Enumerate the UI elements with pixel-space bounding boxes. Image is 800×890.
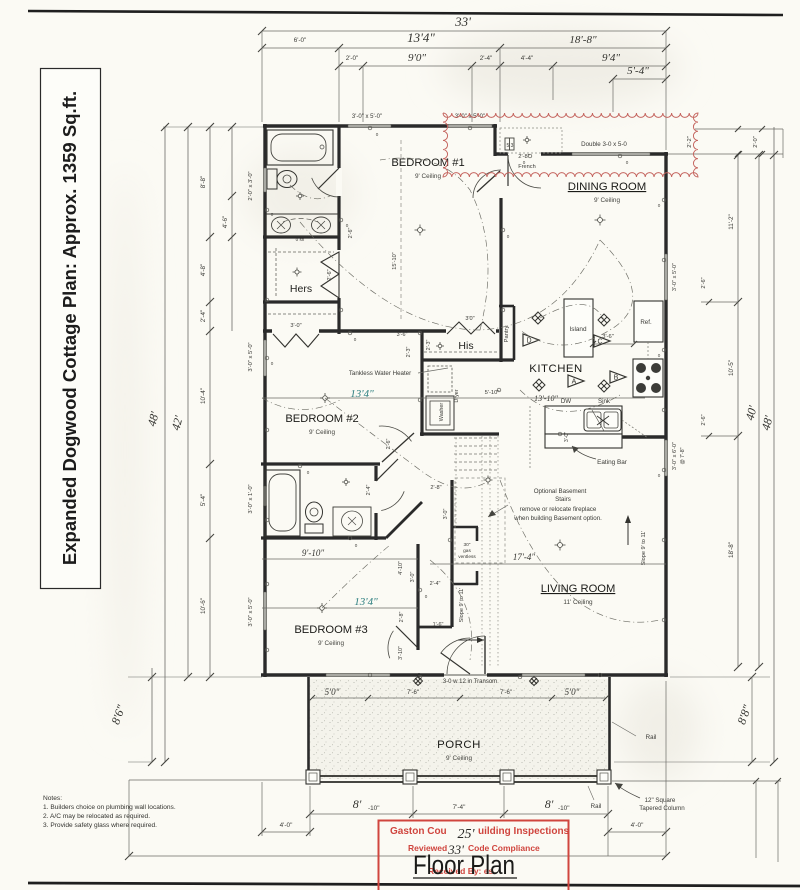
svg-text:12" Square: 12" Square bbox=[645, 797, 676, 804]
svg-text:4'-0": 4'-0" bbox=[280, 822, 293, 829]
chase bottom bbox=[452, 583, 478, 586]
bottom drop lines bbox=[129, 779, 306, 781]
svg-text:BEDROOM #1: BEDROOM #1 bbox=[391, 157, 464, 169]
stair direction arrow bbox=[458, 639, 484, 641]
svg-text:4'-6": 4'-6" bbox=[222, 216, 229, 229]
wall WD closet bottom (H4) bbox=[420, 432, 499, 435]
bottom border line bbox=[28, 883, 800, 886]
outer wall top dining section bbox=[495, 152, 668, 155]
svg-text:Floor Plan: Floor Plan bbox=[413, 850, 515, 880]
chase top bbox=[452, 526, 478, 529]
svg-text:0: 0 bbox=[658, 353, 661, 358]
outer wall top-left section bbox=[263, 124, 497, 127]
top border line bbox=[28, 11, 783, 15]
bathtub2 bbox=[265, 470, 300, 536]
window left wall bedroom3 3-0x5-0 bbox=[263, 592, 266, 630]
stair dotted verticals bbox=[481, 436, 483, 668]
living arrow up bbox=[627, 520, 629, 545]
svg-text:@ 7'-8": @ 7'-8" bbox=[680, 447, 686, 464]
svg-text:-10": -10" bbox=[368, 805, 380, 812]
svg-text:1'-6": 1'-6" bbox=[433, 622, 444, 628]
svg-text:3'-0": 3'-0" bbox=[443, 509, 449, 520]
top dimension row3 bbox=[339, 65, 666, 67]
wiring curve dining-kitchen bbox=[520, 240, 633, 345]
svg-text:1. Builders choice on plumbin: 1. Builders choice on plumbing wall loca… bbox=[43, 804, 176, 811]
right dim 2-2 jog bbox=[695, 128, 783, 130]
wall bath vanity bottom (H1) bbox=[263, 235, 340, 238]
washer bbox=[426, 396, 454, 430]
svg-text:8': 8' bbox=[353, 797, 362, 811]
stoop steps symbol bbox=[505, 138, 514, 150]
bedroom2 closet shelf dashes bbox=[268, 313, 336, 315]
svg-text:0 sn: 0 sn bbox=[296, 237, 305, 242]
svg-text:0: 0 bbox=[658, 473, 661, 478]
svg-text:0: 0 bbox=[658, 203, 661, 208]
his closet shelf bbox=[424, 351, 498, 353]
svg-text:0: 0 bbox=[271, 361, 274, 366]
svg-text:0: 0 bbox=[271, 212, 274, 217]
svg-text:Rail: Rail bbox=[591, 803, 602, 810]
left porch dim 8ft6 bbox=[151, 668, 153, 762]
window left wall bedroom2 3-0x5-0 bbox=[263, 340, 266, 376]
svg-text:Pantry: Pantry bbox=[504, 326, 510, 343]
svg-text:2'-6": 2'-6" bbox=[327, 269, 333, 280]
door bedroom1 entry arc bbox=[477, 171, 500, 192]
svg-text:2'-4": 2'-4" bbox=[366, 485, 372, 496]
svg-text:3-0 w 12 in Transom: 3-0 w 12 in Transom bbox=[443, 679, 497, 685]
svg-text:Tankless Water Heater: Tankless Water Heater bbox=[349, 370, 411, 377]
svg-text:5'0": 5'0" bbox=[325, 687, 340, 697]
svg-text:Eating Bar: Eating Bar bbox=[597, 459, 628, 466]
island bbox=[564, 299, 593, 357]
living 17-4 dim bbox=[430, 563, 666, 565]
svg-text:7'-4": 7'-4" bbox=[453, 804, 466, 811]
svg-text:10'-6": 10'-6" bbox=[200, 598, 207, 614]
wall bedroom3 right (V5) bbox=[416, 544, 419, 650]
hall bottom stub bbox=[418, 626, 452, 629]
svg-text:Island: Island bbox=[569, 326, 586, 333]
window right wall kitchen nook 3-0x6-0 bbox=[664, 440, 667, 476]
wiring bath bbox=[290, 185, 330, 199]
outer wall jog at entry stoop bbox=[493, 124, 496, 156]
wall bbox=[307, 677, 310, 782]
svg-text:gas: gas bbox=[463, 549, 471, 554]
bed3 13-4 dim bbox=[262, 607, 418, 609]
svg-text:2'-2": 2'-2" bbox=[687, 136, 693, 148]
bedroom2 diagonal door bbox=[382, 433, 414, 462]
bed2 13-4 dim bbox=[262, 397, 645, 399]
svg-text:8': 8' bbox=[545, 797, 554, 811]
svg-text:Ref.: Ref. bbox=[640, 319, 652, 326]
svg-text:DINING ROOM: DINING ROOM bbox=[568, 181, 646, 193]
svg-text:Stairs: Stairs bbox=[555, 496, 571, 503]
svg-text:Rail: Rail bbox=[646, 734, 657, 741]
fan bedroom1 bbox=[415, 225, 426, 236]
svg-text:0: 0 bbox=[307, 470, 310, 475]
svg-text:2'-6": 2'-6" bbox=[701, 414, 707, 425]
svg-text:6'-0": 6'-0" bbox=[294, 37, 307, 44]
right dim 48ft line bbox=[773, 127, 775, 762]
front door leaf and arc bbox=[484, 636, 486, 674]
sidebar title box bbox=[41, 69, 101, 589]
right porch dim 8ft8 bbox=[751, 677, 753, 762]
outer wall left bbox=[263, 124, 266, 677]
hall door arc near front entry bbox=[441, 638, 471, 653]
svg-text:2'-8": 2'-8" bbox=[430, 485, 441, 491]
bedroom3 entry door bbox=[396, 626, 418, 648]
svg-text:11' Ceiling: 11' Ceiling bbox=[563, 599, 593, 606]
bottom dim row2 4-0 lines bbox=[262, 831, 310, 833]
outlets bbox=[368, 126, 372, 130]
fan dining bbox=[595, 215, 606, 226]
svg-text:9' Ceiling: 9' Ceiling bbox=[309, 429, 336, 436]
entry stoop dashed outline bbox=[500, 128, 562, 153]
svg-text:2'-3": 2'-3" bbox=[406, 347, 412, 358]
wall WD closet left (V3) bbox=[420, 331, 423, 436]
svg-text:10'-5": 10'-5" bbox=[728, 360, 735, 376]
svg-text:5'-4": 5'-4" bbox=[627, 65, 649, 77]
svg-text:2'-0" x 3'-0": 2'-0" x 3'-0" bbox=[248, 171, 254, 200]
svg-text:8'-8": 8'-8" bbox=[200, 176, 207, 189]
svg-text:3'-6": 3'-6" bbox=[397, 332, 408, 338]
wall his closet bottom (H3) bbox=[422, 358, 514, 361]
svg-text:3'-0": 3'-0" bbox=[290, 323, 301, 329]
porch posts bbox=[306, 770, 320, 784]
svg-text:-10": -10" bbox=[558, 805, 570, 812]
svg-text:when building Basement option.: when building Basement option. bbox=[513, 515, 602, 522]
wall bedroom2 south (H5) bbox=[261, 462, 380, 465]
bed1 15-10 dim bbox=[400, 140, 402, 320]
range/cooktop bbox=[633, 359, 663, 397]
svg-text:KITCHEN: KITCHEN bbox=[529, 363, 583, 375]
light bath bbox=[296, 192, 304, 200]
svg-text:9' Ceiling: 9' Ceiling bbox=[415, 173, 442, 180]
svg-text:2'-3": 2'-3" bbox=[426, 340, 432, 351]
light bath2 bbox=[342, 478, 350, 486]
svg-text:7'-6": 7'-6" bbox=[500, 690, 512, 696]
svg-text:0: 0 bbox=[425, 594, 428, 599]
right dim segmented line A bbox=[737, 155, 739, 667]
svg-text:0: 0 bbox=[626, 160, 629, 165]
kitchen diamonds bbox=[532, 312, 544, 324]
svg-text:0: 0 bbox=[507, 234, 510, 239]
window bottom living double 3-0x6-0 bbox=[522, 673, 585, 676]
window bed1 top 2 bbox=[448, 124, 492, 127]
svg-text:2'-4": 2'-4" bbox=[430, 581, 441, 587]
svg-text:ventless: ventless bbox=[458, 554, 476, 560]
svg-text:9'4": 9'4" bbox=[602, 52, 620, 64]
svg-text:3'-0": 3'-0" bbox=[564, 432, 570, 442]
pantry right bbox=[513, 306, 516, 360]
svg-text:3'-0" x 5'-0": 3'-0" x 5'-0" bbox=[352, 114, 382, 120]
svg-text:2'-6": 2'-6" bbox=[386, 439, 392, 450]
svg-text:9' Ceiling: 9' Ceiling bbox=[594, 197, 621, 204]
left dim 48ft line bbox=[164, 127, 166, 762]
stamp box bbox=[379, 821, 569, 890]
svg-text:Dryer: Dryer bbox=[454, 389, 460, 402]
porch bottom rail bbox=[308, 775, 610, 777]
kitchen triangles bbox=[523, 334, 539, 346]
svg-text:Sink: Sink bbox=[598, 398, 611, 405]
left dim 42ft line bbox=[187, 127, 189, 677]
window right wall dining 3-0x5-0 bbox=[664, 254, 667, 300]
outer wall right bbox=[664, 152, 667, 677]
wiring bed3 bbox=[322, 545, 390, 608]
svg-text:13'4": 13'4" bbox=[354, 596, 378, 608]
porch interior dim line bbox=[312, 697, 606, 699]
wiring curve bed1-dining bbox=[300, 222, 600, 330]
svg-text:0: 0 bbox=[523, 160, 526, 165]
bottom long dim row3 bbox=[129, 855, 666, 857]
svg-text:Slope 9' to 11': Slope 9' to 11' bbox=[459, 588, 465, 623]
svg-text:0: 0 bbox=[355, 543, 358, 548]
svg-text:C: C bbox=[597, 339, 602, 346]
svg-text:5 3: 5 3 bbox=[507, 143, 514, 149]
fan living bbox=[555, 540, 566, 551]
wall bbox=[608, 677, 611, 782]
svg-text:3. Provide safety glass where: 3. Provide safety glass where required. bbox=[43, 822, 157, 829]
bottom dim row1 bbox=[310, 813, 608, 815]
vanity2 bbox=[333, 507, 371, 536]
svg-text:5'-4": 5'-4" bbox=[200, 494, 207, 507]
svg-text:15'-10": 15'-10" bbox=[392, 252, 398, 269]
svg-text:PORCH: PORCH bbox=[437, 739, 481, 751]
kitchen half wall bbox=[622, 435, 666, 438]
outer wall bottom left segment bbox=[261, 673, 420, 676]
left dim inner line bbox=[231, 127, 233, 331]
window left wall bath2 3-0x1-0 bbox=[263, 486, 266, 506]
svg-text:4'-10": 4'-10" bbox=[398, 561, 404, 575]
stoop sparkle bbox=[523, 136, 531, 144]
svg-text:Double 3-0 x 5-0: Double 3-0 x 5-0 bbox=[581, 141, 627, 148]
revision cloud bbox=[443, 113, 698, 177]
svg-text:Washer: Washer bbox=[439, 403, 445, 422]
svg-text:Optional Basement: Optional Basement bbox=[534, 488, 587, 495]
svg-text:9'0": 9'0" bbox=[408, 52, 426, 64]
svg-text:18'-8": 18'-8" bbox=[569, 34, 597, 46]
left ladder connector bbox=[163, 126, 263, 128]
bath2 door leaf bbox=[376, 459, 398, 481]
svg-text:5'0": 5'0" bbox=[565, 687, 580, 697]
chase stub top bbox=[476, 527, 479, 541]
diagonal hall wall bbox=[386, 502, 422, 538]
svg-text:18'-8": 18'-8" bbox=[728, 542, 735, 558]
svg-text:4'-0": 4'-0" bbox=[631, 822, 644, 829]
svg-text:2'-6": 2'-6" bbox=[701, 277, 707, 288]
wiring curve bed2/hall bbox=[325, 398, 490, 488]
toilet master bbox=[267, 169, 277, 189]
svg-text:13'-10": 13'-10" bbox=[534, 394, 558, 403]
window bottom bedroom3 double 3-0x6-0 bbox=[326, 673, 390, 676]
pantry top bbox=[499, 305, 514, 308]
light hall bbox=[436, 342, 444, 350]
svg-text:2'-8": 2'-8" bbox=[399, 612, 405, 623]
wiring curve living big arc bbox=[500, 480, 660, 622]
svg-text:remove or relocate fireplace: remove or relocate fireplace bbox=[520, 506, 597, 513]
svg-text:French: French bbox=[518, 164, 535, 170]
svg-text:11'-2": 11'-2" bbox=[728, 214, 735, 230]
svg-text:3'-0" x 5'-0": 3'-0" x 5'-0" bbox=[248, 342, 254, 371]
his bifold bbox=[447, 322, 495, 334]
svg-text:2'-0": 2'-0" bbox=[753, 136, 759, 148]
svg-text:A: A bbox=[572, 379, 577, 386]
toilet2 bbox=[305, 524, 323, 533]
outer wall bottom right segment bbox=[487, 673, 668, 676]
svg-text:D: D bbox=[526, 338, 531, 345]
double vanity master bbox=[266, 214, 338, 236]
svg-text:4'-4": 4'-4" bbox=[521, 55, 534, 62]
svg-text:Tapered Column: Tapered Column bbox=[639, 805, 685, 812]
svg-text:2'-4": 2'-4" bbox=[480, 55, 493, 62]
top dimension row 33ft bbox=[262, 30, 666, 32]
svg-text:LIVING ROOM: LIVING ROOM bbox=[541, 583, 616, 595]
svg-text:B: B bbox=[614, 375, 619, 382]
svg-text:0: 0 bbox=[354, 337, 357, 342]
vertical drop lines bbox=[261, 31, 263, 122]
svg-text:BEDROOM #3: BEDROOM #3 bbox=[294, 624, 367, 636]
svg-text:0: 0 bbox=[376, 132, 379, 137]
svg-text:Slope 9' to 11': Slope 9' to 11' bbox=[641, 531, 647, 566]
svg-text:Expanded Dogwood Cottage Plan:: Expanded Dogwood Cottage Plan: Approx. 1… bbox=[59, 91, 80, 565]
interior wall bath/bed1 (V1) bbox=[337, 126, 340, 334]
wall bath2/bed3 south (H6) bbox=[261, 536, 386, 539]
kitchen counter + sink bbox=[545, 406, 622, 434]
bedroom2 closet bifold bbox=[273, 334, 319, 347]
svg-text:2'-4": 2'-4" bbox=[200, 310, 207, 323]
hers closet shelving dashes bbox=[275, 248, 277, 298]
svg-text:9' Ceiling: 9' Ceiling bbox=[446, 755, 473, 762]
svg-text:13'4": 13'4" bbox=[350, 388, 374, 400]
wiring curve kitchen lower bbox=[520, 390, 620, 411]
entry stoop french door leaf/arc bbox=[507, 155, 509, 186]
svg-text:3'0": 3'0" bbox=[465, 316, 474, 322]
wall bed1/dining-pantry (V2) bbox=[499, 198, 502, 362]
svg-text:2. A/C may be relocated as re: 2. A/C may be relocated as required. bbox=[43, 813, 150, 820]
svg-text:9' Ceiling: 9' Ceiling bbox=[318, 640, 345, 647]
svg-text:3'-0" x 5'-0": 3'-0" x 5'-0" bbox=[672, 263, 678, 291]
svg-text:4'-8": 4'-8" bbox=[200, 264, 207, 277]
left dim segmented line bbox=[209, 127, 211, 677]
wall hers closet bottom bbox=[263, 300, 340, 303]
svg-text:Notes:: Notes: bbox=[43, 795, 62, 802]
svg-text:10'-4": 10'-4" bbox=[200, 388, 207, 404]
optional basement stair dashes bbox=[454, 437, 499, 439]
svg-text:9'-10": 9'-10" bbox=[302, 548, 324, 558]
svg-text:25': 25' bbox=[458, 827, 476, 842]
bed3 9-10 dim bbox=[262, 558, 418, 560]
svg-text:DW: DW bbox=[561, 398, 571, 405]
eating bar counter bbox=[545, 434, 622, 448]
top dimension row2 bbox=[262, 47, 666, 49]
wall bedroom1 south (H2) bbox=[263, 329, 499, 332]
window dining double 3-0x5-0 bbox=[572, 152, 650, 155]
svg-text:His: His bbox=[458, 340, 473, 352]
window left wall bath 2-0x3-0 bbox=[263, 168, 266, 192]
svg-text:Hers: Hers bbox=[290, 283, 312, 295]
svg-text:0: 0 bbox=[346, 223, 349, 228]
svg-text:33': 33' bbox=[454, 14, 471, 29]
refrigerator bbox=[634, 301, 663, 342]
svg-text:3'-10": 3'-10" bbox=[398, 646, 404, 660]
porch deck stipple bbox=[308, 679, 610, 779]
svg-text:17'-4": 17'-4" bbox=[513, 552, 535, 562]
svg-text:3'-0" x 1'-0": 3'-0" x 1'-0" bbox=[248, 484, 254, 513]
top dimension row4 5-4 bbox=[613, 78, 666, 80]
right dim 40ft line bbox=[758, 155, 760, 667]
chase stub bottom bbox=[476, 571, 479, 585]
svg-text:uilding Inspections: uilding Inspections bbox=[478, 826, 570, 837]
svg-text:Gaston Cou: Gaston Cou bbox=[390, 826, 447, 837]
window bed1 top 1 bbox=[348, 124, 391, 127]
front door opening bbox=[444, 671, 487, 679]
svg-text:3'-0": 3'-0" bbox=[410, 572, 416, 583]
svg-text:3'-0" x 6'-0": 3'-0" x 6'-0" bbox=[672, 442, 678, 470]
bathtub master bbox=[267, 130, 333, 165]
bath door leaf/arc bbox=[318, 168, 339, 189]
svg-text:2'-6": 2'-6" bbox=[348, 228, 354, 239]
svg-text:BEDROOM #2: BEDROOM #2 bbox=[285, 413, 358, 425]
svg-text:2'-0": 2'-0" bbox=[346, 55, 359, 62]
stair wall (V6) bbox=[450, 480, 453, 627]
svg-text:3'-0" x 5'-0": 3'-0" x 5'-0" bbox=[248, 597, 254, 626]
door gap french at entry stoop bbox=[508, 151, 541, 157]
svg-text:7'-6": 7'-6" bbox=[407, 690, 419, 696]
outer wall bottom center bbox=[418, 673, 444, 676]
wall bath2 right (V4) bbox=[374, 466, 377, 540]
svg-text:13'4": 13'4" bbox=[407, 30, 435, 45]
svg-text:30": 30" bbox=[463, 542, 470, 548]
hers double door triangles bbox=[321, 252, 339, 274]
fan stoop bbox=[484, 476, 493, 485]
optional basement dashed box bbox=[455, 478, 505, 563]
